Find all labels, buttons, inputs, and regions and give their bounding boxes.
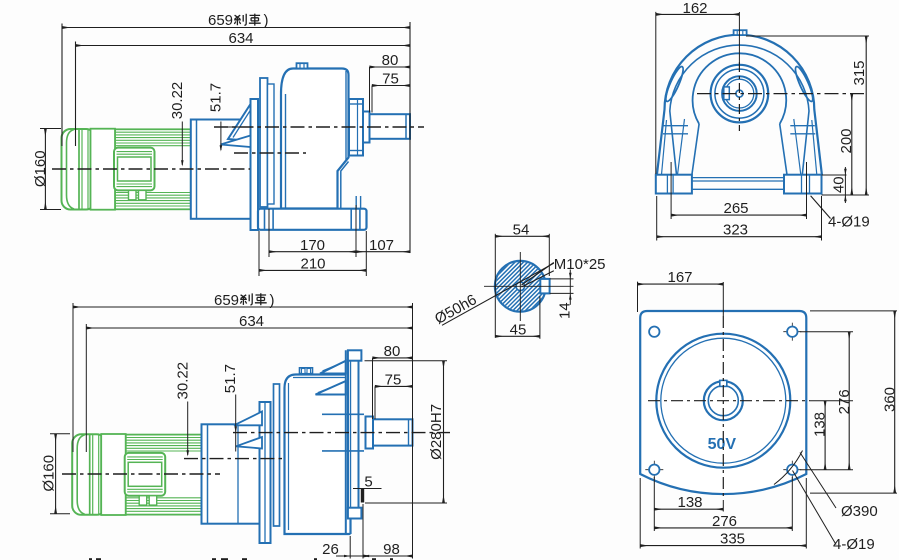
svg-text:360: 360 — [881, 387, 898, 412]
svg-text:): ) — [270, 292, 275, 309]
svg-text:4-Ø19: 4-Ø19 — [828, 214, 870, 231]
svg-text:26: 26 — [322, 541, 339, 558]
svg-text:75: 75 — [385, 371, 402, 388]
svg-text:50V: 50V — [708, 436, 737, 453]
svg-text:265: 265 — [723, 200, 748, 217]
svg-text:45: 45 — [510, 321, 527, 338]
svg-text:5: 5 — [364, 474, 372, 491]
svg-text:4-Ø19: 4-Ø19 — [833, 536, 875, 553]
svg-text:276: 276 — [836, 389, 853, 414]
svg-text:Ø160: Ø160 — [41, 455, 58, 492]
svg-text:107: 107 — [369, 237, 394, 254]
svg-text:315: 315 — [851, 60, 868, 85]
svg-text:75: 75 — [382, 71, 399, 88]
svg-text:M10*25: M10*25 — [554, 256, 606, 273]
svg-text:54: 54 — [513, 221, 530, 238]
svg-text:40: 40 — [830, 176, 847, 193]
svg-text:80: 80 — [382, 52, 399, 69]
svg-text:30.22: 30.22 — [174, 362, 191, 400]
svg-text:30.22: 30.22 — [169, 82, 186, 120]
svg-text:80: 80 — [384, 343, 401, 360]
svg-text:Ø160: Ø160 — [32, 150, 49, 187]
svg-text:51.7: 51.7 — [207, 83, 224, 112]
svg-text:138: 138 — [677, 494, 702, 511]
svg-text:Ø390: Ø390 — [841, 503, 878, 520]
svg-text:167: 167 — [667, 269, 692, 286]
svg-text:659: 659 — [214, 292, 239, 309]
svg-text:323: 323 — [723, 221, 748, 238]
svg-text:162: 162 — [682, 0, 707, 17]
svg-text:276: 276 — [712, 513, 737, 530]
svg-text:210: 210 — [300, 256, 325, 273]
svg-text:659: 659 — [208, 12, 233, 29]
svg-text:14: 14 — [556, 302, 573, 319]
svg-text:170: 170 — [300, 237, 325, 254]
svg-text:138: 138 — [812, 412, 829, 437]
svg-text:634: 634 — [228, 30, 253, 47]
svg-text:200: 200 — [838, 128, 855, 153]
svg-text:): ) — [264, 12, 269, 29]
svg-text:335: 335 — [720, 531, 745, 548]
svg-text:634: 634 — [239, 313, 264, 330]
svg-text:51.7: 51.7 — [222, 364, 239, 393]
svg-text:98: 98 — [383, 541, 400, 558]
